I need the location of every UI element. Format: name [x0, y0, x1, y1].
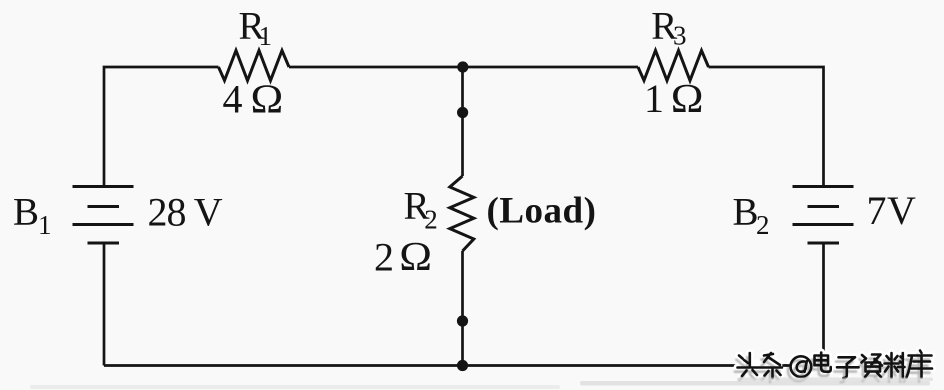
watermark wire eraser (left of at-sign): [737, 360, 783, 372]
battery B2 long plate (top): [793, 185, 854, 188]
wire: R3 right lead across and down to B2 top plate: [709, 67, 824, 187]
junction dot on middle branch (upper): [457, 107, 468, 118]
wire: B2 bottom plate down to bottom rail: [822, 243, 825, 366]
svg-text:B: B: [13, 191, 39, 234]
watermark black ink: [738, 351, 933, 379]
node A junction dot (top wire): [457, 61, 468, 72]
wire dash visible between tiao and at-sign: [782, 364, 790, 367]
watermark wire eraser (right of at-sign): [790, 360, 935, 372]
svg-text:1: 1: [644, 76, 664, 121]
watermark gray shadow band below text: [580, 381, 930, 386]
svg-text:B: B: [733, 191, 759, 234]
svg-text:1: 1: [38, 210, 52, 240]
svg-text:4: 4: [223, 77, 243, 122]
wire: B1 top plate up and across to R1 left lead: [104, 67, 219, 187]
watermark gray drop shadow: [735, 355, 930, 383]
battery B2 short plate (bottom): [808, 242, 840, 245]
battery B2 short plate: [808, 205, 840, 208]
wire: R1 right lead to node A: [289, 66, 463, 69]
battery B2 long plate (lower): [793, 223, 854, 226]
svg-text:3: 3: [673, 20, 687, 50]
svg-text:Ω: Ω: [399, 234, 432, 279]
resistor R2 zigzag (vertical, load): [450, 176, 474, 251]
gray smear below watermark text: [737, 378, 933, 382]
svg-text:28 V: 28 V: [148, 190, 223, 235]
junction dot on middle branch (lower): [457, 315, 468, 326]
svg-text:Ω: Ω: [251, 77, 284, 122]
svg-text:(Load): (Load): [487, 191, 597, 232]
svg-text:1: 1: [259, 21, 273, 51]
battery B1 short plate (bottom): [88, 242, 120, 245]
wire: node A down to R2 top lead: [461, 67, 464, 176]
wire: B1 bottom plate down to bottom rail: [103, 243, 106, 366]
battery B1 long plate (lower): [73, 223, 134, 226]
junction dot bottom rail node: [457, 360, 468, 371]
resistor R3 zigzag: [638, 51, 709, 81]
svg-text:7: 7: [867, 188, 887, 233]
faint artifact band along bottom edge: [30, 385, 560, 389]
battery B1 long plate (top): [73, 185, 134, 188]
resistor R1 zigzag: [219, 51, 290, 81]
battery B1 short plate: [88, 205, 120, 208]
wire: R2 bottom lead down to bottom rail: [461, 251, 464, 366]
svg-text:Ω: Ω: [671, 76, 704, 121]
watermark white halo: [738, 351, 933, 379]
svg-text:2: 2: [374, 235, 394, 280]
wire: node A to R3 left lead: [463, 66, 639, 69]
wire: bottom rail: [104, 364, 824, 367]
svg-text:V: V: [887, 188, 916, 233]
svg-text:2: 2: [424, 205, 438, 235]
svg-text:2: 2: [756, 210, 770, 240]
